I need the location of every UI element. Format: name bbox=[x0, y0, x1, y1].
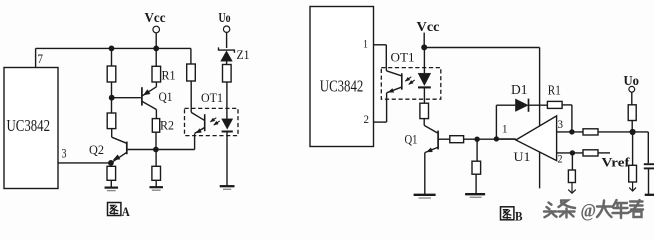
node dot emitter bus bbox=[153, 147, 159, 153]
svg-text:7: 7 bbox=[38, 52, 44, 66]
watermark text bbox=[543, 199, 642, 217]
svg-text:R2: R2 bbox=[160, 119, 174, 133]
optocoupler OT1 B dashed box bbox=[381, 68, 441, 100]
wire Q1 emitter down B bbox=[424, 153, 426, 195]
wire Ruo to node bbox=[631, 121, 633, 133]
Vcc terminal A bbox=[153, 26, 160, 33]
wire to Q1 collector B bbox=[423, 119, 425, 126]
arrow ground Uo B bbox=[632, 182, 634, 191]
wire pin2 to Vref bbox=[598, 152, 610, 154]
wire pin2 B bbox=[374, 121, 387, 123]
wire node to resistor bbox=[110, 163, 112, 166]
svg-text:1: 1 bbox=[363, 37, 368, 51]
ground below LED A bbox=[220, 185, 235, 187]
wire Q1 collector to R2 bbox=[155, 110, 157, 119]
svg-text:U1: U1 bbox=[514, 150, 531, 164]
resistor R-bus (unlabeled below R2) bbox=[152, 166, 161, 180]
capacitor C (clipped) bbox=[644, 163, 654, 165]
ground capacitor B bbox=[645, 194, 654, 196]
wire rail corner to resistor bbox=[190, 48, 192, 64]
wire D1 feedback up bbox=[495, 105, 497, 139]
wire bus node to resistor bbox=[155, 150, 157, 167]
light arrows OT1-A bbox=[210, 118, 216, 122]
resistor R-div B (unlabeled) bbox=[472, 161, 481, 174]
wire Vcc stem A bbox=[155, 33, 157, 49]
svg-text:Q1: Q1 bbox=[159, 90, 173, 104]
transistor Q1 (PNP) bbox=[141, 87, 143, 105]
resistor R-a2 (unlabeled, left rail lower) bbox=[107, 113, 116, 129]
resistor R2 A bbox=[152, 119, 159, 133]
Uo terminal B bbox=[629, 86, 635, 92]
svg-text:R1: R1 bbox=[162, 69, 176, 83]
wire Vcc to LED B bbox=[423, 47, 425, 73]
wire left rail upper bbox=[111, 48, 113, 66]
resistor R-p2g B (unlabeled) bbox=[568, 170, 575, 183]
wire pin3 B bbox=[557, 131, 583, 133]
wire left rail mid bbox=[111, 82, 113, 113]
resistor R-uo B (unlabeled) bbox=[628, 105, 636, 121]
resistor R-p3 B (unlabeled) bbox=[583, 129, 598, 135]
wire Q2 collector bbox=[111, 129, 113, 138]
ground below Q2 resistor bbox=[110, 180, 112, 187]
wire resistor to LED anode bbox=[226, 82, 228, 119]
arrow ground pin2 B bbox=[571, 183, 573, 193]
node dot pin2 B bbox=[570, 150, 575, 155]
svg-text:UC3842: UC3842 bbox=[320, 76, 364, 95]
wire pin7 vertical bbox=[35, 48, 37, 67]
resistor R-a1 (unlabeled, left rail top) bbox=[107, 66, 116, 82]
resistor R-z1 (unlabeled) bbox=[223, 65, 232, 83]
resistor R-p2 B (unlabeled) bbox=[583, 150, 598, 156]
IC U-B UC3842 bbox=[310, 7, 374, 147]
node dot rail1-top bbox=[109, 46, 115, 52]
wire D1 to R1 B bbox=[529, 104, 548, 106]
transistor Q1 B (NPN) bbox=[437, 131, 439, 150]
wire Z1 to resistor bbox=[226, 61, 228, 64]
wire base Q1 bbox=[112, 97, 141, 99]
wire opamp out bbox=[496, 138, 515, 140]
wire Uo stem B bbox=[631, 92, 633, 105]
phototransistor OT1-A bbox=[204, 114, 206, 131]
wire base bus B bbox=[464, 138, 515, 140]
resistor R1 A bbox=[152, 66, 161, 82]
wire pin2 divider stem bbox=[571, 153, 573, 170]
resistor R-q1base B (unlabeled) bbox=[450, 136, 464, 143]
node dot Vcc B bbox=[421, 44, 427, 50]
svg-text:Z1: Z1 bbox=[237, 48, 250, 62]
node dot Vcc-top bbox=[153, 46, 159, 52]
svg-text:Q1: Q1 bbox=[405, 133, 418, 147]
svg-text:R1: R1 bbox=[548, 84, 561, 99]
node dot pin3-emitter bbox=[108, 160, 114, 166]
phototransistor OT1-B bbox=[401, 73, 403, 89]
svg-text:B: B bbox=[515, 208, 523, 223]
ground Q1 emitter B bbox=[414, 194, 436, 196]
svg-text:OT1: OT1 bbox=[201, 91, 223, 105]
svg-text:Vcc: Vcc bbox=[145, 10, 166, 25]
wire pin1 B bbox=[374, 44, 387, 46]
wire R2 to node bbox=[155, 132, 157, 149]
svg-text:OT1: OT1 bbox=[391, 51, 415, 65]
wire cap corner B bbox=[647, 132, 649, 163]
transistor Q2 (NPN) bbox=[126, 142, 128, 155]
svg-text:2: 2 bbox=[364, 112, 370, 126]
diode D1 bbox=[515, 99, 528, 112]
wire pin2 B out bbox=[557, 152, 583, 154]
resistor R-uog B (unlabeled) bbox=[629, 165, 637, 182]
svg-text:@: @ bbox=[581, 202, 597, 222]
resistor R-led B (unlabeled) bbox=[420, 103, 429, 118]
wire Vcc stem B bbox=[423, 33, 425, 48]
ground below bus resistor bbox=[155, 180, 157, 187]
wire Uo node down bbox=[632, 132, 634, 165]
caption fig A box glyph bbox=[108, 203, 121, 216]
node dot r-div B bbox=[474, 137, 479, 142]
wire emitter bus bbox=[127, 149, 195, 151]
LED OT1-A bbox=[222, 119, 233, 129]
optocoupler OT1 A dashed box bbox=[185, 108, 239, 135]
wire pin3 bbox=[58, 162, 111, 164]
node dot Q1 base bbox=[109, 95, 115, 101]
resistor R-opto (unlabeled) bbox=[187, 64, 196, 81]
node dot D1 tap B bbox=[494, 136, 499, 141]
svg-text:3: 3 bbox=[558, 117, 564, 131]
wire R1 top bbox=[155, 48, 157, 66]
LED OT1-B bbox=[418, 73, 431, 85]
wire R1 to pin3 corner bbox=[562, 104, 572, 106]
svg-text:Vcc: Vcc bbox=[417, 19, 440, 34]
wire resistor to photo collector bbox=[190, 81, 192, 112]
op-amp U1 bbox=[516, 116, 557, 161]
svg-text:Vref: Vref bbox=[602, 156, 631, 170]
wire top rail B bbox=[424, 47, 539, 49]
svg-text:Q2: Q2 bbox=[89, 143, 104, 157]
wire Uo to Z1 bbox=[226, 32, 228, 48]
svg-text:3: 3 bbox=[62, 147, 67, 161]
resistor R-q2e (unlabeled) bbox=[107, 166, 116, 180]
svg-text:1: 1 bbox=[502, 122, 508, 136]
node dot pin3 B bbox=[569, 129, 574, 134]
wire divider stem B bbox=[476, 139, 478, 161]
caption fig B box glyph bbox=[501, 207, 514, 220]
wire top rail A bbox=[36, 47, 191, 49]
zener Z1 bbox=[219, 47, 235, 52]
Uo terminal A bbox=[223, 26, 229, 32]
wire mid vertical B (behind opamp) bbox=[539, 48, 541, 189]
svg-text:A: A bbox=[122, 204, 131, 219]
light arrows OT1-B bbox=[405, 77, 411, 81]
node dot Uo B bbox=[630, 129, 636, 135]
resistor R1 B bbox=[547, 101, 562, 108]
IC U-A UC3842 bbox=[4, 68, 58, 189]
wire pin3 to Uo node bbox=[598, 131, 648, 133]
ground divider B bbox=[465, 193, 485, 195]
svg-text:UC3842: UC3842 bbox=[7, 116, 51, 135]
svg-text:Uo: Uo bbox=[219, 10, 231, 25]
svg-text:D1: D1 bbox=[511, 83, 528, 98]
